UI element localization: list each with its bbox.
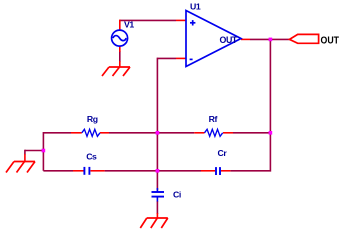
svg-text:Rf: Rf	[209, 114, 218, 124]
svg-text:Cr: Cr	[218, 148, 228, 158]
svg-text:V1: V1	[124, 19, 134, 29]
svg-text:OUT: OUT	[321, 35, 340, 47]
svg-text:Cs: Cs	[86, 151, 97, 161]
svg-text:OUT: OUT	[220, 35, 238, 45]
svg-text:Ci: Ci	[173, 189, 181, 199]
svg-text:Rg: Rg	[87, 114, 98, 124]
svg-text:U1: U1	[190, 2, 201, 12]
